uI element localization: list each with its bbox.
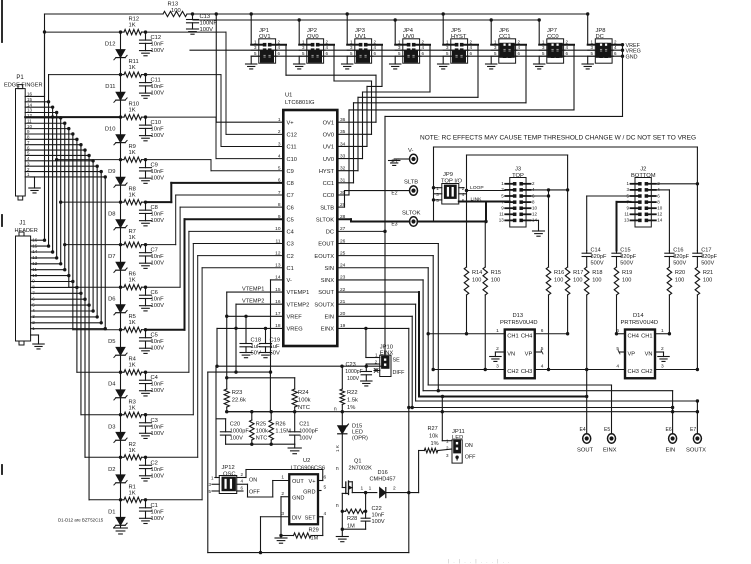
wire JP10 pin1 riser (366, 328, 380, 357)
svg-text:8: 8 (278, 202, 281, 208)
svg-text:3: 3 (281, 511, 284, 517)
svg-text:100V: 100V (151, 261, 165, 267)
capacitor C8 (140, 202, 165, 226)
svg-text:C1: C1 (151, 503, 158, 509)
jumper JP1 OV1 (246, 12, 287, 69)
resistor R9 (121, 144, 148, 162)
svg-text:1000pF: 1000pF (345, 369, 363, 375)
D14 pin5 stub (618, 350, 625, 354)
svg-text:50V: 50V (251, 351, 261, 357)
note D1-D12 (58, 518, 104, 523)
capacitor C23 (345, 362, 372, 386)
svg-text:D6: D6 (108, 297, 115, 303)
resistor R5 (121, 314, 148, 332)
svg-text:UV1: UV1 (323, 145, 334, 151)
svg-text:1%: 1% (347, 405, 355, 411)
svg-text:5: 5 (324, 485, 327, 491)
jumper JP7 CC0 (534, 18, 575, 69)
wire C10 to U1 pin 4 (146, 117, 284, 158)
wire staircase bus (43, 32, 107, 500)
svg-text:C5: C5 (287, 217, 294, 223)
svg-text:PRTR5V0U4D: PRTR5V0U4D (621, 320, 659, 326)
svg-text:CH3: CH3 (628, 369, 639, 375)
svg-text:C8: C8 (151, 205, 158, 211)
svg-text:C3: C3 (151, 418, 158, 424)
svg-text:100: 100 (554, 278, 563, 284)
svg-text:SOUT: SOUT (577, 448, 594, 454)
svg-text:100: 100 (703, 278, 712, 284)
svg-text:13: 13 (275, 263, 281, 269)
svg-text:TOP: TOP (512, 173, 524, 179)
svg-text:100V: 100V (151, 218, 165, 224)
svg-text:100: 100 (592, 278, 601, 284)
wire V+ top rail (45, 13, 588, 15)
svg-text:C20: C20 (230, 422, 240, 428)
svg-text:100NF: 100NF (200, 21, 218, 27)
wire C6 to U1 pin 8 (146, 207, 284, 287)
svg-text:SINX: SINX (321, 278, 334, 284)
svg-text:1: 1 (496, 328, 499, 334)
svg-text:DIV: DIV (292, 515, 302, 521)
diode D13 (496, 313, 544, 378)
capacitor C18 (240, 316, 261, 357)
svg-text:VTEMP1: VTEMP1 (287, 290, 310, 296)
svg-text:R21: R21 (703, 270, 713, 276)
wire D13 CH4 (535, 333, 568, 335)
svg-text:C7: C7 (287, 193, 294, 199)
wire ladder tap 4 (77, 371, 122, 374)
svg-text:U1: U1 (285, 93, 292, 99)
svg-text:C6: C6 (287, 205, 294, 211)
svg-text:10nF: 10nF (151, 297, 165, 303)
svg-text:EINX: EINX (603, 448, 617, 454)
svg-text:1K: 1K (129, 405, 136, 411)
wire JP12 to U2 (246, 470, 323, 481)
svg-text:2: 2 (661, 346, 664, 352)
wire J2 pin2 right (656, 184, 698, 251)
svg-text:V+: V+ (309, 479, 316, 485)
capacitor C11 (140, 75, 165, 99)
svg-text:SLTB: SLTB (320, 205, 334, 211)
diode D6 (108, 287, 127, 330)
svg-text:V+: V+ (287, 120, 295, 126)
svg-text:P1: P1 (16, 75, 24, 81)
svg-text:C11: C11 (287, 145, 297, 151)
svg-text:13: 13 (499, 218, 505, 223)
svg-text:100V: 100V (151, 516, 165, 522)
svg-text:1: 1 (369, 486, 372, 492)
svg-text:500V: 500V (701, 261, 714, 267)
svg-text:1K: 1K (129, 278, 136, 284)
svg-text:R25: R25 (256, 422, 266, 428)
diode D5 (108, 330, 127, 373)
wire D14 CH1 (655, 333, 669, 335)
svg-text:SLTOK: SLTOK (402, 211, 421, 217)
svg-text:NTC: NTC (256, 436, 267, 442)
wire V+ left drop (43, 14, 46, 96)
svg-text:D2: D2 (108, 467, 115, 473)
svg-text:C11: C11 (151, 78, 161, 84)
svg-text:1K: 1K (129, 320, 136, 326)
diode D16 (361, 470, 419, 498)
wire U2 DIV (259, 517, 289, 555)
svg-text:C2: C2 (287, 254, 294, 260)
svg-text:C12: C12 (287, 133, 297, 139)
diode D8 (108, 202, 127, 245)
svg-text:EIN: EIN (325, 314, 334, 320)
svg-text:E2: E2 (391, 191, 397, 197)
svg-text:GRD: GRD (303, 490, 315, 496)
svg-text:C18: C18 (251, 338, 262, 344)
op-amp U2 outline (289, 458, 325, 524)
svg-text:D1: D1 (108, 509, 115, 515)
svg-text:LTC6906CS6: LTC6906CS6 (291, 465, 326, 471)
svg-text:2: 2 (278, 129, 281, 135)
resistor R12 (121, 17, 148, 35)
wire EIN riser (337, 316, 414, 409)
resistor R3 (121, 399, 148, 417)
svg-text:10nF: 10nF (372, 513, 385, 519)
resistor R13 (163, 2, 187, 17)
resistor R10 (121, 102, 148, 120)
turret E4 SOUT (577, 427, 594, 454)
wire VREG (215, 327, 283, 368)
svg-text:10nF: 10nF (151, 509, 165, 515)
svg-text:C17: C17 (701, 248, 711, 254)
svg-text:VN: VN (645, 352, 653, 358)
svg-text:E4: E4 (580, 427, 586, 433)
svg-text:SOUTX: SOUTX (314, 302, 334, 308)
diode D14 (616, 313, 664, 378)
svg-text:12: 12 (275, 250, 281, 256)
svg-text:n: n (336, 503, 339, 509)
svg-text:R29: R29 (309, 528, 319, 534)
U1 right pin names (314, 117, 345, 333)
capacitor C7 (140, 245, 165, 269)
svg-text:100V: 100V (230, 436, 243, 442)
node VTEMP2 (234, 298, 283, 411)
diode D1 (108, 500, 127, 528)
capacitor C1 (140, 500, 165, 524)
svg-text:HEADER: HEADER (15, 228, 38, 234)
svg-text:10nF: 10nF (151, 254, 165, 260)
svg-text:R27: R27 (428, 426, 438, 432)
svg-text:V-: V- (408, 148, 414, 154)
svg-text:100V: 100V (347, 376, 360, 382)
svg-text:D1-D12 are BZT52C15: D1-D12 are BZT52C15 (58, 518, 104, 523)
wire ladder tap 8 (61, 200, 123, 203)
connector P1 box (4, 75, 43, 200)
wire C12 to U1 pin 2 (146, 32, 284, 134)
svg-text:D3: D3 (108, 424, 115, 430)
svg-text:1M: 1M (347, 524, 355, 530)
wire DC to VREG rail (383, 230, 386, 368)
wire VREF rail (193, 19, 539, 21)
svg-text:GND: GND (626, 55, 638, 61)
svg-text:J3: J3 (515, 167, 521, 173)
svg-text:820pF: 820pF (701, 254, 717, 260)
svg-text:C2: C2 (151, 460, 158, 466)
wire SOUT to JP11 (442, 397, 452, 441)
resistor R26 (269, 412, 291, 445)
wire C23 to JP10 pin2 (365, 364, 367, 366)
svg-text:4: 4 (324, 511, 327, 517)
wire J2 pin5 left (587, 196, 631, 251)
svg-text:50V: 50V (270, 351, 280, 357)
wire ladder tap 11 (49, 73, 123, 76)
wire JP7 to U1 pin 30 (337, 45, 574, 195)
svg-text:HYST: HYST (319, 169, 335, 175)
svg-text:R15: R15 (491, 270, 501, 276)
wire R17 riser (467, 155, 568, 191)
svg-text:SET: SET (305, 515, 316, 521)
svg-text:V-: V- (287, 278, 292, 284)
LED D15 (338, 412, 368, 488)
svg-text:C1: C1 (287, 266, 294, 272)
note RC effects (420, 135, 696, 142)
svg-text:1000pF: 1000pF (299, 429, 319, 435)
svg-text:500V: 500V (673, 261, 686, 267)
turret E6 EIN (666, 427, 677, 454)
svg-text:E7: E7 (690, 427, 696, 433)
svg-text:100V: 100V (299, 436, 312, 442)
wire V+ to U1 pin1 (215, 12, 284, 122)
svg-text:11: 11 (32, 267, 37, 272)
svg-text:C22: C22 (372, 506, 382, 512)
wire JP3 to U1 pin 34 (337, 45, 382, 147)
wire ladder tap 2 (85, 456, 122, 459)
wire SOUT bus bold (337, 292, 586, 434)
svg-text:CH4: CH4 (628, 333, 639, 339)
svg-text:C4: C4 (287, 230, 294, 236)
jumper JP10 EINX (366, 345, 405, 377)
wire D13 CH1 row (428, 333, 505, 335)
svg-text:SLTOK: SLTOK (316, 217, 334, 223)
capacitor C16 / resistor R20 (665, 248, 690, 336)
resistor R2 (121, 442, 148, 460)
wire JP4 to U1 pin 33 (337, 45, 430, 159)
wire therm bottom rail (226, 443, 295, 449)
resistor R8 (121, 187, 148, 205)
svg-text:UV0: UV0 (323, 157, 334, 163)
jumper JP12 OSC (208, 465, 260, 496)
diode D7 (108, 245, 127, 288)
svg-text:SOUT: SOUT (318, 290, 334, 296)
svg-text:C3: C3 (287, 242, 294, 248)
svg-text:C4: C4 (151, 375, 159, 381)
svg-text:OV0: OV0 (323, 133, 334, 139)
svg-text:10: 10 (27, 124, 33, 129)
svg-text:SE: SE (393, 358, 401, 364)
svg-text:10nF: 10nF (151, 169, 165, 175)
svg-text:10nF: 10nF (151, 339, 165, 345)
resistor R25 (250, 412, 269, 445)
svg-text:1: 1 (281, 475, 284, 481)
svg-text:6: 6 (616, 328, 619, 334)
turret E1 V- (389, 148, 418, 166)
svg-text:6: 6 (278, 178, 281, 184)
turret E7 SOUTX (686, 427, 706, 454)
svg-text:1: 1 (361, 486, 364, 492)
svg-text:C7: C7 (151, 248, 158, 254)
svg-text:12: 12 (532, 212, 538, 217)
svg-text:EIN: EIN (666, 448, 676, 454)
wire ladder tap 6 (69, 286, 122, 289)
svg-text:(OPR): (OPR) (352, 436, 368, 442)
svg-text:2: 2 (281, 491, 284, 497)
connector J1 box (15, 221, 38, 346)
svg-text:1K: 1K (129, 193, 136, 199)
jumper JP11 LED (446, 429, 476, 463)
svg-text:100k: 100k (298, 398, 311, 404)
capacitor C12 (140, 32, 165, 56)
ground under D1 (114, 528, 128, 534)
jumper JP8 DC (582, 12, 623, 69)
svg-text:12: 12 (27, 113, 33, 118)
svg-text:EDGE FINGER: EDGE FINGER (4, 83, 43, 89)
capacitor C19 (260, 328, 281, 357)
svg-text:820pF: 820pF (673, 254, 689, 260)
label LINK (471, 196, 483, 202)
svg-text:CH2: CH2 (641, 369, 652, 375)
wire U2 GND (275, 497, 289, 543)
svg-text:J1: J1 (19, 221, 26, 227)
wire ladder tap 10 (25, 115, 122, 118)
svg-text:CH1: CH1 (641, 333, 652, 339)
svg-text:VP: VP (628, 352, 636, 358)
svg-text:820pF: 820pF (620, 254, 636, 260)
svg-text:DIFF: DIFF (393, 370, 406, 376)
svg-text:D16: D16 (378, 470, 388, 476)
svg-text:VREF: VREF (287, 314, 303, 320)
svg-text:3: 3 (496, 364, 499, 370)
svg-text:C14: C14 (591, 248, 601, 254)
svg-text:100: 100 (573, 278, 582, 284)
wire VREF to R23 (225, 376, 295, 389)
turret E3 SLTOK (337, 211, 487, 228)
D13 VN ground (490, 352, 505, 361)
svg-text:1K: 1K (129, 235, 136, 241)
svg-text:6: 6 (541, 328, 544, 334)
svg-text:100V: 100V (151, 388, 165, 394)
svg-text:C10: C10 (151, 120, 162, 126)
svg-text:CMHD457: CMHD457 (370, 477, 396, 483)
svg-text:10: 10 (32, 273, 38, 278)
connector P1 pins (25, 92, 105, 178)
resistor R24 (292, 389, 311, 412)
svg-text:OUT: OUT (292, 479, 304, 485)
svg-text:9: 9 (278, 214, 281, 220)
svg-text:1K: 1K (129, 23, 136, 29)
wire C20 feed (216, 366, 226, 477)
capacitor C2 (140, 457, 165, 481)
wire D14 CH4 (617, 333, 626, 335)
svg-text:C5: C5 (151, 333, 158, 339)
svg-text:4: 4 (541, 364, 544, 370)
svg-text:14: 14 (27, 102, 33, 107)
capacitor C3 (140, 415, 165, 439)
svg-text:R28: R28 (347, 516, 357, 522)
wire loop J9-J3 (465, 189, 505, 192)
svg-text:10: 10 (532, 206, 538, 211)
wire ladder tap 7 (65, 243, 122, 246)
svg-text:JP12: JP12 (222, 465, 235, 471)
svg-text:4: 4 (616, 364, 619, 370)
svg-text:DC: DC (326, 230, 334, 236)
svg-text:CC1: CC1 (323, 181, 334, 187)
wire Q1 drain (352, 482, 377, 493)
wire J3 row2 right (531, 188, 570, 191)
wire C7 to U1 pin 7 (146, 195, 284, 245)
wire ladder tap 9 (57, 158, 123, 161)
svg-text:C10: C10 (287, 157, 297, 163)
svg-text:OV1: OV1 (323, 120, 334, 126)
capacitor C5 (140, 330, 165, 354)
resistor R27 (419, 426, 452, 493)
svg-text:13: 13 (624, 218, 630, 223)
svg-text:VTEMP2: VTEMP2 (287, 302, 310, 308)
resistor R28 (342, 509, 365, 529)
jumper JP2 OV0 (294, 18, 335, 69)
svg-text:14: 14 (657, 218, 663, 223)
svg-text:820pF: 820pF (591, 254, 607, 260)
svg-text:100V: 100V (151, 431, 165, 437)
svg-text:SLTB: SLTB (404, 180, 418, 186)
svg-text:11: 11 (624, 212, 629, 217)
svg-text:500V: 500V (620, 261, 633, 267)
svg-text:D7: D7 (108, 254, 115, 260)
svg-text:n: n (334, 407, 337, 413)
wire JP6 to U1 pin 31 (337, 45, 526, 183)
wire V- pin14 (269, 280, 284, 374)
wire VREG rail bottom (217, 365, 385, 368)
svg-text:100: 100 (675, 278, 684, 284)
wire C8 to U1 pin 6 (146, 183, 284, 202)
wire J2 pin4 right (656, 190, 670, 251)
wire C4 to U1 pin 10 (146, 231, 284, 372)
svg-text:C6: C6 (151, 290, 158, 296)
resistor R6 (121, 272, 148, 290)
wire C3 to U1 pin 11 (146, 244, 284, 415)
wire D13 CH3 to D14 CH3 (535, 369, 625, 371)
resistor R4 (121, 357, 148, 375)
wire Q1 source (336, 493, 348, 541)
svg-text:R17: R17 (573, 270, 583, 276)
svg-text:ON: ON (249, 478, 257, 484)
diode D10 (105, 117, 127, 160)
capacitor C9 (140, 160, 165, 184)
capacitor C21 (290, 412, 319, 445)
resistor R14 (464, 191, 482, 336)
diode D2 (108, 457, 127, 500)
capacitor C15 / resistor R19 (612, 248, 637, 336)
svg-text:E5: E5 (604, 427, 610, 433)
svg-text:NOTE: RC EFFECTS MAY CAUSE TE: NOTE: RC EFFECTS MAY CAUSE TEMP THRESHOL… (420, 135, 696, 142)
wire SINX bus (337, 280, 674, 434)
svg-text:100V: 100V (151, 176, 165, 182)
svg-text:100V: 100V (151, 48, 165, 54)
wire JP2 to U1 pin 35 (334, 45, 372, 135)
wire C11 to U1 pin 3 (146, 75, 284, 147)
svg-text:10nF: 10nF (151, 467, 165, 473)
wire ladder tap 5 (73, 328, 122, 331)
svg-text:10k: 10k (429, 434, 438, 440)
svg-text:100: 100 (472, 278, 481, 284)
svg-text:C16: C16 (673, 248, 683, 254)
svg-text:D8: D8 (108, 212, 115, 218)
wire SIN bus (337, 268, 611, 434)
svg-text:VP: VP (525, 352, 533, 358)
